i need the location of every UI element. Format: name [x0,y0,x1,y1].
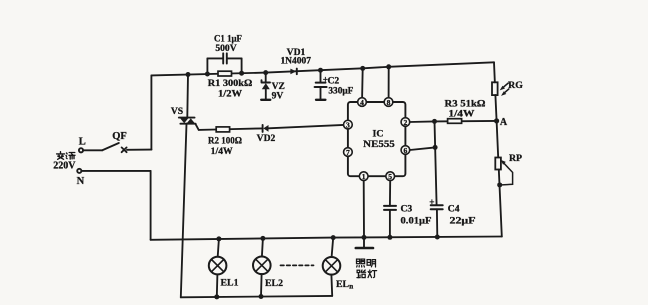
glyph jiao [57,152,65,160]
node R3 left junction [432,119,437,124]
wire top rail [151,62,494,75]
resistor R3 [448,119,462,124]
svg-text:C3: C3 [401,204,413,215]
wire C2 lead upper [320,70,322,82]
wire EL1 upper lead [218,239,219,257]
zener VZ triangle [262,83,270,89]
resistor R2 [216,127,229,132]
svg-text:EL2: EL2 [265,278,283,289]
svg-text:2: 2 [404,118,408,127]
capacitor C1 plates [223,53,227,63]
IC U1 NE555 body [348,102,406,176]
wire bottom rail [181,296,332,297]
node C4 junction [435,235,440,240]
wire right rail top to RG [493,62,496,82]
svg-text:1N4007: 1N4007 [280,56,311,67]
node C2 junction [318,68,323,73]
wire pin5 lead [389,181,391,206]
wire VS lower vertical to bottom rail [181,124,187,298]
node EL2 top junction [260,236,265,241]
pin 4 [358,98,367,107]
resistor R1 [218,71,232,76]
wire gate line to pin3 [216,128,263,129]
wire VZ lead upper [265,73,267,83]
capacitor C1 loop top right [227,57,242,59]
node C3 junction [387,235,392,240]
node pin6 junction [433,145,438,150]
svg-text:1/2W: 1/2W [218,89,242,100]
ground [356,237,373,248]
svg-text:C4: C4 [448,204,460,215]
capacitor C4 plates [431,205,443,209]
capacitor C2 plates [315,83,327,87]
triac VS top bar [179,117,195,119]
svg-text:+: + [429,197,434,207]
triac VS right triangle [187,118,195,123]
svg-text:A: A [500,117,508,128]
wire VZ lead lower [265,89,267,99]
wire pin1 lead [363,181,365,238]
svg-text:330μF: 330μF [328,85,353,96]
svg-text:7: 7 [346,148,350,157]
node VS tap junction [186,72,191,77]
svg-text:ELn: ELn [336,279,353,291]
wire A to RP [497,121,499,158]
wire ELn upper lead [332,238,334,257]
wire EL1 lower lead [216,274,219,297]
wire EL2 upper lead [262,238,263,256]
glyph zhao [357,259,365,267]
svg-text:22μF: 22μF [450,215,476,226]
diode VD2 [263,125,268,132]
wire VD2 to pin3 [268,125,343,128]
diode VD2 cathode bar [262,125,264,132]
wire EL2 lower lead [260,274,263,296]
diode VD1 cathode bar [296,69,298,75]
capacitor C3 plates [384,206,396,210]
svg-text:NE555: NE555 [363,139,395,150]
potentiometer RP body [495,158,501,170]
capacitor C1 loop right leg [241,58,243,73]
wire pin4 stub [361,68,364,97]
wire C4 lower lead [436,209,438,237]
node EL1 bottom junction [214,294,219,299]
wire pin6 to divider node [410,147,435,150]
svg-text:VS: VS [171,106,183,117]
node pin4 top junction [360,66,365,71]
wire VS upper lead [186,75,189,118]
svg-text:4: 4 [360,98,364,107]
terminal N [77,169,81,173]
triac VS left triangle [180,118,188,123]
wire pin8 stub [388,67,390,98]
lamp EL1 [209,257,227,275]
svg-text:RP: RP [509,153,522,164]
node EL2 bottom junction [259,294,264,299]
wire L to switch [83,149,102,151]
node C1 right junction [239,71,244,76]
svg-text:IC: IC [373,128,384,139]
svg-text:0.01μF: 0.01μF [401,215,432,226]
pin 5 [386,172,395,181]
capacitor C1 loop left leg [206,58,208,74]
pin 7 [344,148,353,157]
svg-text:L: L [79,137,86,148]
lamp EL2 [253,257,271,275]
node ELn top junction [331,235,336,240]
wire VS gate [196,124,216,130]
node C1 left junction [205,72,210,77]
wire dashed continuation [281,264,314,266]
svg-text:EL1: EL1 [221,277,239,288]
pin 6 [401,146,410,155]
triac VS bottom bar [180,123,195,125]
glyph deng [368,270,377,278]
zener VZ bottom bar [261,99,270,101]
breaker QF cross mark [122,147,127,152]
svg-text:VD2: VD2 [257,133,276,144]
glyph liu [66,153,75,160]
svg-text:R1 300kΩ: R1 300kΩ [208,78,253,89]
wire left vertical riser [150,75,152,149]
svg-text:6: 6 [404,146,408,155]
wire N vertical drop [150,171,152,240]
node EL1 top junction [216,236,221,241]
svg-text:RG: RG [508,80,523,91]
svg-text:9V: 9V [272,91,284,102]
glyph lu [357,270,366,278]
pin 8 [384,98,393,107]
wire pin2 to node [410,121,497,122]
wire RG to A [495,95,496,121]
svg-text:1/4W: 1/4W [211,146,233,157]
glyph ming [367,260,375,267]
svg-text:3: 3 [346,121,350,130]
wire ELn lower lead [330,275,333,296]
photoresistor RG body [492,82,498,95]
svg-text:220V: 220V [53,161,76,172]
wire N horizontal [81,170,150,172]
svg-text:8: 8 [387,98,391,107]
wire QF to left corner [127,149,151,151]
diode VD1 [290,69,296,75]
node RP wiper junction [497,182,502,187]
wire divider vertical to C4 [435,121,437,205]
pin 1 [359,172,368,181]
pin 2 [401,118,410,127]
label lighting street lamps [357,259,377,278]
zener VZ cathode bar [262,80,271,82]
wire RP to bottom [499,170,502,237]
label AC source [53,152,76,172]
capacitor C1 loop top left [207,57,223,59]
potentiometer RP wiper arrow [500,160,513,185]
wire C2 lead lower [320,87,322,99]
photoresistor RG light arrows [500,83,509,96]
wire C3 lower lead [389,210,391,237]
wire N return rail [151,237,502,240]
svg-text:1/4W: 1/4W [448,109,474,120]
svg-text:QF: QF [112,131,127,142]
capacitor C2 bottom bar [316,99,325,101]
lamp ELn [323,257,341,275]
terminal L [79,148,83,152]
node pin8 top junction [386,64,391,69]
pin 3 [344,120,353,129]
node pin1 junction [362,235,367,240]
node VZ junction [263,70,268,75]
svg-text:500V: 500V [215,43,236,54]
svg-text:N: N [77,176,85,187]
node A junction [494,118,499,123]
breaker QF blade [102,143,119,150]
